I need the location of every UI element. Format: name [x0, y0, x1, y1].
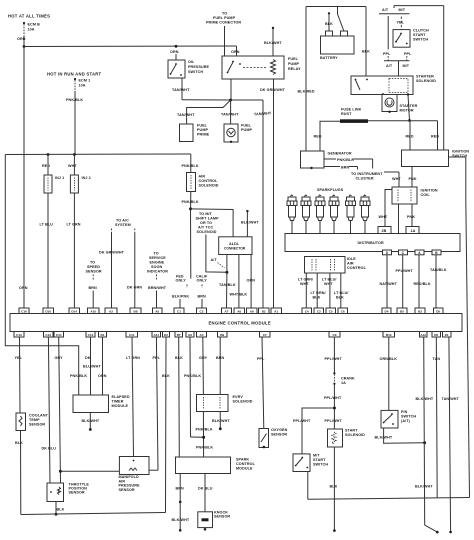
svg-text:PNK: PNK [407, 215, 415, 219]
wire PNK ignition switch to coil [409, 167, 417, 188]
connector C12 [86, 332, 95, 338]
connector B10 [383, 332, 395, 338]
connector C1 [174, 308, 184, 314]
svg-text:BRN: BRN [176, 487, 185, 491]
switch P/N [381, 410, 416, 428]
wire PNK/BLK below air solenoid [182, 192, 199, 209]
fuse ECM 1 10A [74, 78, 90, 91]
svg-text:SOON: SOON [151, 265, 162, 269]
connector C2 [197, 308, 207, 314]
fuse link rust [314, 108, 438, 151]
wire RED/BLK distributor A to ECM B3 [414, 255, 431, 308]
connector A6 [234, 308, 245, 314]
svg-text:COOLANT: COOLANT [29, 414, 49, 418]
wire TAN/WHT right branch to ECM B2 [231, 100, 272, 308]
wire M/T switch to bottom bus [307, 472, 309, 500]
component ignition switch [402, 150, 470, 167]
svg-text:NAT/WHT: NAT/WHT [380, 282, 398, 286]
wire BLK TPS to ground bus [55, 502, 65, 516]
connector C6 [338, 308, 348, 314]
wire M/T YEL dashed into clutch switch [397, 17, 405, 30]
svg-text:PNK/BLK: PNK/BLK [196, 428, 213, 432]
svg-text:FUEL PUMP: FUEL PUMP [213, 16, 236, 20]
svg-text:ONLY: ONLY [197, 279, 208, 283]
svg-text:LT BLU: LT BLU [40, 223, 54, 227]
connector B2 [259, 308, 270, 314]
svg-text:ORN: ORN [170, 50, 179, 54]
svg-text:RELAY: RELAY [288, 67, 301, 71]
svg-text:SWITCH: SWITCH [188, 70, 203, 74]
svg-text:DK BLU: DK BLU [198, 487, 213, 491]
wire ALDL to junction A/T [226, 255, 228, 273]
node junction A/T TAN/BLK [225, 271, 228, 274]
connector D6 [432, 332, 441, 338]
svg-text:RED: RED [42, 164, 50, 168]
svg-text:RED: RED [431, 135, 439, 139]
wire ORN from fuse ECM B [17, 36, 26, 47]
svg-text:CONTROL: CONTROL [199, 179, 219, 183]
wire to fuel pump prime connector [224, 26, 226, 56]
svg-text:TO INSTRUMENT: TO INSTRUMENT [351, 172, 383, 176]
wire BRN/WHT indicator to ECM A5 [148, 275, 167, 309]
svg-text:BLK/WHT: BLK/WHT [416, 397, 434, 401]
svg-text:BRN: BRN [341, 165, 350, 169]
wire solenoid to ground bar [408, 95, 411, 122]
svg-text:TO A/C: TO A/C [116, 219, 129, 223]
svg-text:B1: B1 [101, 333, 105, 337]
svg-text:SOLENOID: SOLENOID [233, 400, 253, 404]
wire bracket A/T M/T top right [394, 6, 444, 150]
wire right edge ignition run loop [466, 157, 470, 498]
svg-text:BLK: BLK [362, 50, 370, 54]
svg-text:TO: TO [154, 252, 159, 256]
wire LT BLU INJ1 to ECM D16 [40, 193, 54, 308]
node junction ORN bus [23, 45, 26, 48]
svg-text:A1: A1 [274, 309, 278, 313]
wire LT BLU/WHT IAC to C5 [322, 273, 337, 308]
svg-text:PUMP: PUMP [197, 128, 208, 132]
svg-text:PPL: PPL [153, 356, 161, 360]
label CALIF ONLY [196, 275, 208, 283]
component ALDL connector [219, 237, 252, 255]
svg-text:1A: 1A [411, 229, 416, 233]
wire BRN spark module ground [172, 474, 190, 532]
wire TAN/WHT from oil pressure switch [172, 78, 231, 100]
connector B7 [175, 332, 183, 338]
connector C distributor [399, 250, 408, 255]
svg-text:ORN: ORN [98, 374, 107, 378]
svg-text:GRY: GRY [55, 356, 64, 360]
wire PNK/BLK EVRV to spark module [196, 412, 214, 458]
wire ORN bus horizontal [24, 45, 237, 48]
svg-text:B8: B8 [134, 309, 138, 313]
svg-text:DK BLU: DK BLU [42, 447, 57, 451]
svg-text:TEMP: TEMP [29, 418, 40, 422]
svg-text:A4: A4 [200, 333, 204, 337]
fuse INJ 1 [42, 155, 64, 194]
svg-text:10A: 10A [28, 28, 35, 32]
svg-text:ONLY: ONLY [176, 279, 187, 283]
svg-text:SPARK: SPARK [236, 458, 249, 462]
svg-text:BLK/WHT: BLK/WHT [241, 221, 259, 225]
solenoid start [328, 429, 366, 448]
svg-text:2B: 2B [382, 229, 387, 233]
svg-text:OXYGEN: OXYGEN [271, 428, 288, 432]
solenoid EVRV [197, 395, 253, 412]
connector C3 [314, 308, 324, 314]
svg-text:ECM B: ECM B [28, 23, 41, 27]
svg-text:TO: TO [222, 12, 227, 16]
wire PNK/BLK from fuse ECM 1 [66, 91, 83, 155]
svg-text:WHT/BLK: WHT/BLK [230, 293, 248, 297]
svg-text:IDLE: IDLE [347, 257, 356, 261]
component starter solenoid [351, 75, 436, 96]
label TO A/C SYSTEM [115, 219, 131, 228]
svg-text:D6: D6 [434, 333, 438, 337]
svg-text:WHT: WHT [324, 282, 333, 286]
wire YEL C10 to coolant sensor [15, 337, 23, 413]
wire RED feeds to ignition switch [406, 121, 440, 150]
svg-text:D16: D16 [45, 309, 51, 313]
component generator [301, 151, 352, 169]
svg-text:HOT AT ALL TIMES: HOT AT ALL TIMES [8, 14, 50, 19]
wire PPL A11 to MAP sensor [149, 337, 161, 470]
svg-text:IGNITION: IGNITION [421, 189, 438, 193]
label TO FUEL PUMP PRIME CONECTOR [206, 12, 241, 25]
connector C13 [44, 332, 54, 338]
svg-text:C11: C11 [129, 333, 135, 337]
svg-text:IGNITION: IGNITION [452, 150, 469, 154]
wire ORN B1 to timer module [98, 337, 107, 395]
svg-text:SOLENOID: SOLENOID [416, 79, 436, 83]
svg-text:SWITCH: SWITCH [413, 38, 428, 42]
svg-text:ORN: ORN [19, 286, 28, 290]
svg-text:TAN/BLK: TAN/BLK [219, 283, 236, 287]
svg-text:PPL/WHT: PPL/WHT [325, 419, 343, 423]
wire BRN B9 to EVRV [216, 337, 225, 395]
svg-text:PPL: PPL [383, 52, 391, 56]
svg-text:STARTER: STARTER [416, 75, 434, 79]
svg-text:B10: B10 [386, 333, 392, 337]
sensor coolant temp [16, 413, 49, 431]
wire BLK/WHT P/N switch to junction [375, 428, 427, 444]
wire DK BLU C13 to TPS [42, 337, 57, 483]
svg-text:PPL: PPL [404, 52, 412, 56]
switch oil pressure [168, 50, 210, 78]
wire TAN D6 to bottom bus [433, 337, 441, 498]
svg-text:CLUTCH: CLUTCH [413, 29, 429, 33]
svg-text:BLK: BLK [15, 441, 23, 445]
relay fuel pump [222, 56, 301, 79]
component fuel pump [224, 124, 252, 144]
svg-text:1A: 1A [341, 381, 346, 385]
svg-text:YEL: YEL [15, 356, 23, 360]
node junction INJ1 tap [47, 153, 50, 156]
wire PNK/BLK to ALDL [191, 209, 234, 237]
svg-text:SPARKPLUGS: SPARKPLUGS [317, 188, 344, 192]
connector A11 [152, 332, 161, 338]
connector 2B [378, 227, 391, 234]
svg-text:SOLENOID: SOLENOID [199, 184, 219, 188]
connector D2 [163, 332, 170, 338]
wire GRY A4 to EVRV [199, 337, 208, 395]
wire PNK coil to 1A [407, 204, 415, 227]
svg-text:CONTROL: CONTROL [347, 266, 367, 270]
svg-text:C3: C3 [317, 309, 321, 313]
svg-text:EVRV: EVRV [233, 395, 244, 399]
svg-text:M/T: M/T [313, 454, 320, 458]
svg-text:WHT: WHT [68, 164, 77, 168]
svg-text:C10: C10 [16, 333, 22, 337]
node junction INJ2 tap [73, 153, 76, 156]
wire BLK/WHT A12 down [415, 337, 439, 533]
svg-text:PNK/BLK: PNK/BLK [196, 446, 213, 450]
wire TAN/BLK to ECM A7 [219, 272, 236, 308]
sensor oxygen [259, 428, 288, 448]
svg-text:BLK: BLK [175, 356, 183, 360]
svg-text:PUMP: PUMP [241, 128, 252, 132]
svg-text:MOTOR: MOTOR [400, 109, 414, 113]
wire BLK/WHT timer module ground [82, 413, 100, 431]
component fuel pump prime [180, 124, 210, 142]
svg-text:M/T: M/T [403, 64, 410, 68]
svg-text:CONTROL: CONTROL [236, 462, 256, 466]
wire BLK B7 to spark module [175, 337, 183, 457]
connector A4 [197, 332, 207, 338]
wire WHT to ignition coil [392, 172, 401, 187]
wire WHT/BLK ALDL to ECM A6 [230, 255, 248, 309]
svg-text:RED: RED [406, 135, 414, 139]
svg-text:A11: A11 [153, 333, 159, 337]
wire TAN/WHT relay output [230, 79, 232, 100]
node junction shift lamp tap [189, 207, 192, 210]
svg-text:A10: A10 [90, 309, 96, 313]
svg-text:FUEL: FUEL [241, 124, 252, 128]
svg-text:BRN/WHT: BRN/WHT [148, 286, 167, 290]
node junction oil pressure switch tap [175, 45, 178, 48]
battery B1 [320, 12, 354, 60]
wire BLK start solenoid ground [330, 447, 338, 532]
node junction fuel pump feed [229, 99, 232, 102]
svg-text:TO M/T: TO M/T [199, 212, 213, 216]
label TO INSTRUMENT CLUSTER [351, 172, 399, 181]
wire PPL C7 to oxygen sensor [257, 337, 265, 429]
svg-text:PNK/BLK: PNK/BLK [182, 200, 199, 204]
module spark control [176, 457, 256, 474]
svg-text:OIL: OIL [188, 60, 195, 64]
svg-text:LT BLU/: LT BLU/ [322, 278, 337, 282]
wire DK GRN/WHT relay to ECM A1 [260, 79, 286, 308]
svg-text:LT GRN/: LT GRN/ [311, 291, 326, 295]
label FED ONLY [176, 275, 187, 283]
svg-text:CLUSTER: CLUSTER [356, 177, 374, 181]
connector A5 [153, 308, 163, 314]
svg-text:C5: C5 [329, 309, 333, 313]
wire NAT/WHT distributor D to ECM D4 [380, 255, 398, 308]
svg-text:BLK/WHT: BLK/WHT [172, 518, 190, 522]
svg-text:BLK: BLK [162, 374, 170, 378]
spark plug 5 [346, 195, 356, 234]
switch clutch start [393, 29, 429, 48]
svg-text:FUEL: FUEL [197, 124, 208, 128]
svg-text:A/T TCC: A/T TCC [198, 226, 213, 230]
svg-text:BRN: BRN [198, 295, 207, 299]
svg-text:A5: A5 [155, 309, 159, 313]
svg-text:BRN: BRN [89, 286, 98, 290]
svg-text:RED/BLK: RED/BLK [414, 282, 431, 286]
svg-text:M/T: M/T [399, 8, 406, 12]
wire PNK/BLK rail to timer module (drawn above) plus DK BLU/WHT C12 [83, 337, 101, 395]
fuse INJ 2 [68, 155, 91, 194]
svg-text:C9: C9 [333, 333, 337, 337]
svg-text:SYSTEM: SYSTEM [115, 223, 131, 227]
svg-text:TAN/WHT: TAN/WHT [221, 113, 239, 117]
wire BRN speed sensor to ECM A10 [89, 275, 98, 309]
svg-text:A/T: A/T [386, 64, 393, 68]
svg-text:ALDL: ALDL [229, 242, 240, 246]
svg-text:LT GRN/: LT GRN/ [298, 278, 313, 282]
connector C16 [19, 308, 29, 314]
svg-text:AIR: AIR [199, 175, 206, 179]
wire BLK/WHT relay coil stub [264, 27, 282, 56]
svg-text:BLK/WHT: BLK/WHT [264, 41, 282, 45]
svg-text:ORN: ORN [247, 279, 256, 283]
svg-text:D1: D1 [445, 333, 449, 337]
svg-text:SWITCH: SWITCH [401, 415, 416, 419]
connector A7 [222, 308, 232, 314]
svg-text:BLK/RED: BLK/RED [298, 90, 315, 94]
svg-text:ENGINE: ENGINE [150, 261, 165, 265]
svg-text:BLK/WHT: BLK/WHT [375, 436, 393, 440]
svg-text:D14: D14 [71, 309, 77, 313]
label TO SERVICE ENGINE SOON INDICATOR [147, 252, 168, 274]
svg-text:SENSOR: SENSOR [271, 433, 287, 437]
svg-text:C12: C12 [88, 333, 94, 337]
connector B9 [218, 332, 228, 338]
fuse ECM B 10A [23, 22, 40, 36]
svg-text:BLK/PNK: BLK/PNK [172, 295, 189, 299]
component idle air control [305, 257, 367, 274]
svg-text:PRIME CONECTOR: PRIME CONECTOR [206, 21, 241, 25]
wire BLK D2 to ground bus [162, 337, 170, 513]
svg-text:GENERATOR: GENERATOR [328, 152, 352, 156]
wire PPL/WHT distributor C to ECM B5 [396, 255, 414, 308]
label A/T with arrow [211, 258, 225, 268]
wire ORN into relay [231, 46, 240, 56]
svg-text:B9: B9 [220, 333, 224, 337]
svg-text:CRANK: CRANK [341, 377, 355, 381]
wire LT GRN INJ2 to ECM D14 [67, 193, 81, 308]
svg-text:PPL/WHT: PPL/WHT [396, 269, 414, 273]
connector D14 [69, 308, 80, 314]
svg-text:ELAPSED: ELAPSED [112, 395, 130, 399]
svg-text:DK GRN/WHT: DK GRN/WHT [260, 88, 286, 92]
connector B8 [130, 308, 141, 314]
svg-text:C7: C7 [263, 333, 267, 337]
svg-text:BLK/WHT: BLK/WHT [415, 485, 433, 489]
spark plug 1 [287, 195, 297, 234]
svg-text:FUSE LINK: FUSE LINK [341, 108, 362, 112]
svg-text:OR TO: OR TO [200, 221, 212, 225]
connector B1 [99, 332, 107, 338]
wire LT GRN C11 to MAP sensor [126, 337, 140, 457]
wire BLK/WHT stub to ALDL [241, 210, 259, 237]
wire to MAP sensor left [60, 470, 119, 472]
connector B5 [397, 308, 407, 314]
wire TAN/BLK distributor B to ECM D5 [430, 255, 447, 308]
svg-text:ENGINE CONTROL MODULE: ENGINE CONTROL MODULE [209, 321, 271, 326]
svg-text:HOT IN RUN AND START: HOT IN RUN AND START [47, 72, 102, 77]
wire branch to fuel pump prime [177, 100, 231, 124]
svg-text:SENSOR: SENSOR [69, 491, 85, 495]
svg-text:SENSOR: SENSOR [119, 488, 135, 492]
svg-text:LT BLU/: LT BLU/ [334, 291, 349, 295]
svg-text:TAN/WHT: TAN/WHT [172, 88, 190, 92]
wire A/T purple branch [387, 16, 389, 50]
svg-text:SOLENOID: SOLENOID [197, 230, 217, 234]
svg-text:SWITCH: SWITCH [313, 463, 328, 467]
connector D5 [434, 308, 444, 314]
connector A2 [105, 308, 117, 314]
svg-text:DK GRN/WHT: DK GRN/WHT [99, 251, 125, 255]
svg-text:10A: 10A [79, 84, 86, 88]
svg-text:PUMP: PUMP [288, 62, 299, 66]
svg-text:SENSOR: SENSOR [86, 270, 102, 274]
svg-text:PNK: PNK [409, 177, 417, 181]
svg-text:INJ 2: INJ 2 [82, 176, 91, 180]
wire LT GRN/BLK IAC to C3 [311, 273, 326, 308]
wire LT BLU/BLK IAC to C6 [334, 273, 349, 308]
svg-text:WHT: WHT [300, 282, 309, 286]
connector D4 [382, 308, 391, 314]
svg-text:C13: C13 [45, 333, 51, 337]
connector A12 [420, 332, 428, 338]
component starter motor [382, 95, 418, 114]
wire BRN generator lead [324, 165, 358, 169]
svg-text:A/T: A/T [382, 8, 389, 12]
connector C9 [329, 332, 340, 338]
component ignition coil [392, 187, 438, 204]
wire BLK battery to starter solenoid [362, 7, 370, 77]
component air control solenoid [182, 154, 219, 192]
svg-text:PPL/WHT: PPL/WHT [293, 419, 311, 423]
svg-text:TAN/WHT: TAN/WHT [442, 397, 460, 401]
wire ORN ALDL to ECM A9 [247, 255, 256, 309]
connector C7 [260, 332, 271, 338]
sensor throttle position [47, 483, 89, 502]
svg-text:D5: D5 [436, 309, 440, 313]
svg-text:TAN/BLK: TAN/BLK [430, 268, 447, 272]
svg-text:GRY: GRY [199, 356, 208, 360]
svg-text:PPL: PPL [257, 357, 265, 361]
svg-text:YEL: YEL [397, 21, 405, 25]
sensor knock [198, 511, 231, 531]
connector A9 [247, 308, 258, 314]
svg-text:BATTERY: BATTERY [320, 56, 338, 60]
svg-text:BLK: BLK [336, 296, 344, 300]
svg-text:AIR: AIR [347, 262, 354, 266]
svg-text:PRIME: PRIME [197, 133, 210, 137]
wire DK GRN/WHT from A/C to ECM A2 [99, 229, 125, 309]
svg-text:RED: RED [314, 135, 322, 139]
svg-text:BRN: BRN [216, 356, 225, 360]
wire BLK coolant to ground bus [15, 431, 23, 515]
svg-text:CONNECTOR: CONNECTOR [224, 247, 246, 251]
svg-text:A2: A2 [109, 309, 113, 313]
svg-text:START: START [313, 458, 326, 462]
svg-text:INDICATOR: INDICATOR [147, 270, 168, 274]
wire PNK/BLK A8 to EVRV junction [184, 337, 204, 437]
